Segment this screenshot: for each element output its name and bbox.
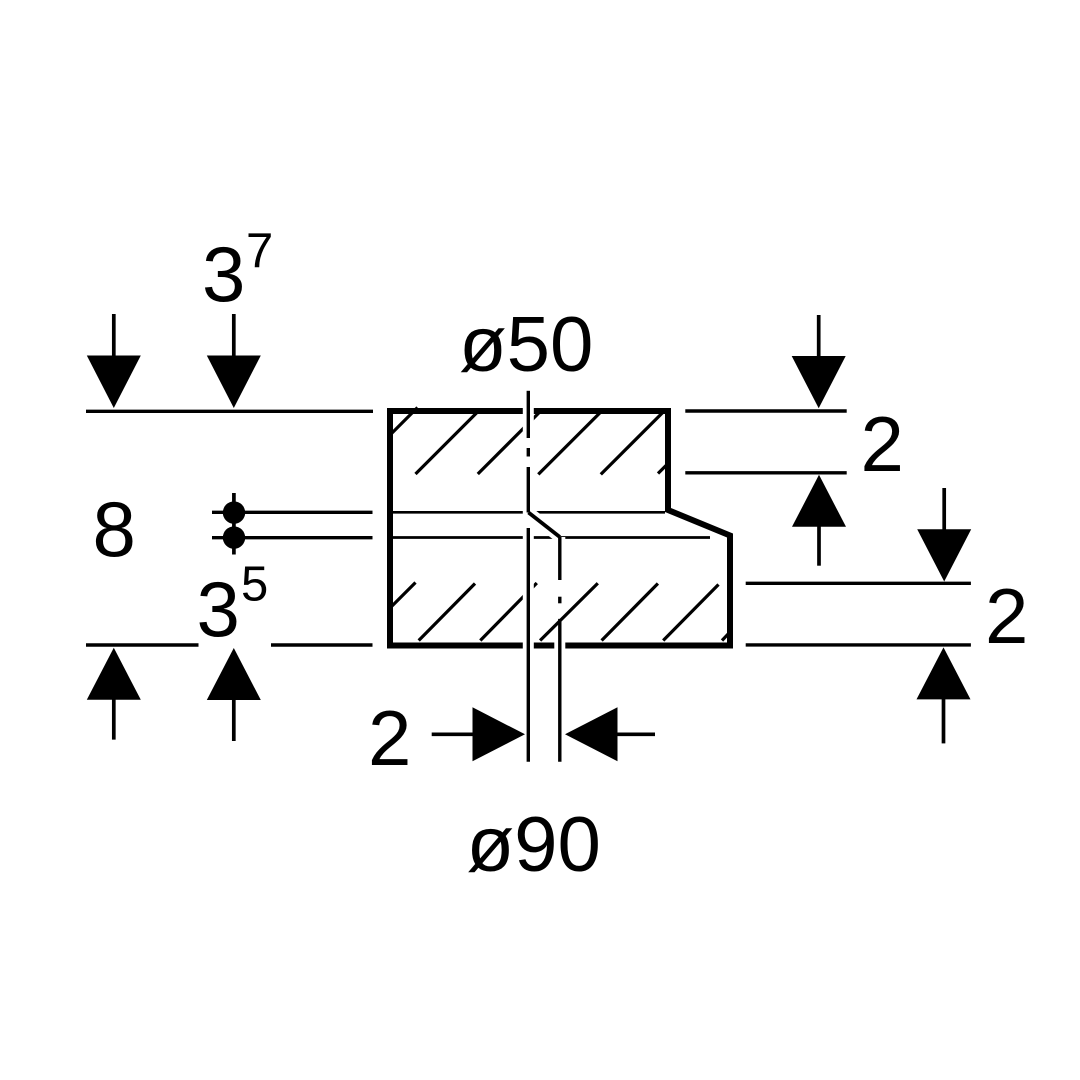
svg-text:5: 5	[241, 558, 268, 612]
svg-text:2: 2	[368, 694, 411, 782]
right lower dimension line 2	[746, 643, 971, 646]
svg-text:3: 3	[197, 565, 240, 653]
hatch stroke over centerline	[540, 583, 598, 640]
right upper dimension line 1	[685, 409, 846, 412]
arrow up right upper	[792, 475, 846, 566]
upper centerline x528 dash-dot	[527, 391, 530, 513]
centerline jog white casing	[529, 513, 560, 538]
svg-text:2: 2	[861, 400, 904, 488]
vertical line casing x528	[523, 390, 534, 762]
dimension 8 dot upper	[223, 501, 245, 523]
arrow down left 1	[87, 314, 141, 408]
lower centerline x560 dash-dot	[558, 537, 561, 762]
body outline	[390, 411, 730, 646]
arrow down right upper	[792, 315, 846, 408]
centerline jog	[529, 513, 560, 538]
svg-text:ø90: ø90	[467, 800, 601, 888]
arrow up right lower	[917, 647, 971, 743]
svg-text:ø50: ø50	[459, 300, 593, 388]
interior bore line A	[393, 511, 665, 514]
svg-text:3: 3	[202, 230, 245, 318]
arrow up left 2	[207, 648, 261, 741]
dimension 8 dot lower	[223, 526, 245, 548]
dimension 8 leader line lower	[212, 536, 373, 539]
bottom offset arrow right-pointing	[432, 707, 525, 761]
vertical line casing x560	[554, 537, 565, 762]
svg-text:7: 7	[246, 224, 273, 278]
dimension 8 tick stem	[232, 493, 236, 555]
svg-text:8: 8	[93, 485, 136, 573]
interior bore line B	[393, 536, 710, 539]
extension line x528 solid	[527, 528, 530, 762]
arrow down left 2	[207, 314, 261, 408]
hatching lower chamber	[392, 583, 731, 641]
bottom offset arrow left-pointing	[565, 707, 655, 761]
dimension 8 leader line upper	[212, 511, 373, 514]
right upper dimension line 2	[685, 471, 846, 474]
arrow down right lower	[917, 488, 971, 582]
bottom face extension line left (gap under text 3-5)	[86, 643, 199, 646]
top face extension line left	[86, 410, 373, 413]
hatching upper chamber	[391, 408, 666, 475]
right lower dimension line 1	[746, 582, 971, 585]
arrow up left 1	[87, 648, 141, 740]
svg-text:2: 2	[985, 572, 1028, 660]
